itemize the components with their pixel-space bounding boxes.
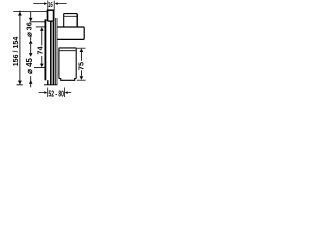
iBox inner top line [60, 50, 76, 52]
dim 16 right tail [58, 3, 67, 5]
dim B arrow up 2 [29, 80, 33, 84]
dim 74 line seg2 [41, 56, 43, 64]
dim 74 arrow up [40, 27, 44, 31]
dim 75 line seg1 [80, 52, 82, 61]
dim 75 ext line bottom [77, 79, 86, 81]
dim 156/154 line [19, 11, 21, 85]
plate back line 2 / wall [56, 18, 58, 85]
dim 74 arrow down [40, 64, 44, 68]
inner step line [50, 21, 52, 85]
feature line E3 [34, 67, 45, 69]
dim B line seg1 [30, 12, 32, 18]
dim 74 line seg1 [41, 31, 43, 46]
dim 52-80 left arrowhead [44, 91, 47, 94]
dim 16 left arrowhead [44, 2, 47, 5]
upper connection big box [57, 27, 84, 39]
svg-text:75: 75 [77, 62, 86, 70]
dim 52-80 ext line left [47, 88, 49, 98]
dim 52-80 right tail [68, 92, 72, 94]
dim B line seg2 [30, 37, 32, 41]
plate bottom line [44, 84, 57, 86]
small box inner line [64, 15, 77, 17]
dim 156/154 ext line bottom [17, 84, 23, 86]
dim 75 arrow up [80, 48, 84, 52]
dim B line seg4 [30, 76, 32, 87]
plate back line 1 [54, 18, 56, 85]
handle knob outline [47, 10, 55, 21]
svg-text:⌀ 45: ⌀ 45 [25, 58, 34, 74]
dim 156/154 arrow up [18, 12, 22, 16]
dim B line seg3 [30, 44, 32, 53]
dim B arrow down 1 [29, 18, 33, 22]
dim B arrow down 2 [29, 53, 33, 57]
svg-text:156 / 154: 156 / 154 [12, 37, 20, 67]
dim 156/154 arrow down [18, 81, 22, 85]
dim 75 line seg2 [80, 70, 82, 76]
plate front line [53, 21, 55, 85]
svg-text:52 - 80: 52 - 80 [48, 90, 64, 98]
svg-text:⌀ 36: ⌀ 36 [24, 22, 33, 37]
dim 52-80 ext line right [63, 88, 65, 98]
dim 52-80 right arrowhead [65, 91, 68, 94]
upper connection small box [64, 14, 77, 27]
feature line E1 [30, 21, 45, 23]
dim 75 ext line top [77, 47, 86, 49]
technical dimension drawing: concealed shower thermostat, side view [0, 0, 100, 100]
dim B arrow up 1 [29, 40, 33, 44]
dim 16 ext line right [53, 1, 55, 11]
plate bottom front step [47, 80, 49, 85]
iBox body [59, 48, 76, 79]
feature line E2 [36, 26, 45, 28]
dim 156/154 ext line top [13, 11, 47, 13]
dim 16 ext line left [47, 1, 49, 11]
lever bar [45, 19, 47, 80]
dim 16 right arrowhead [55, 2, 58, 5]
dim 52-80 left tail [39, 92, 45, 94]
dim 75 arrow down [80, 76, 84, 80]
svg-text:16: 16 [48, 1, 53, 10]
iBox bottom shoulders [59, 79, 76, 81]
dim 16 left tail [33, 3, 44, 5]
svg-text:74: 74 [35, 46, 44, 55]
